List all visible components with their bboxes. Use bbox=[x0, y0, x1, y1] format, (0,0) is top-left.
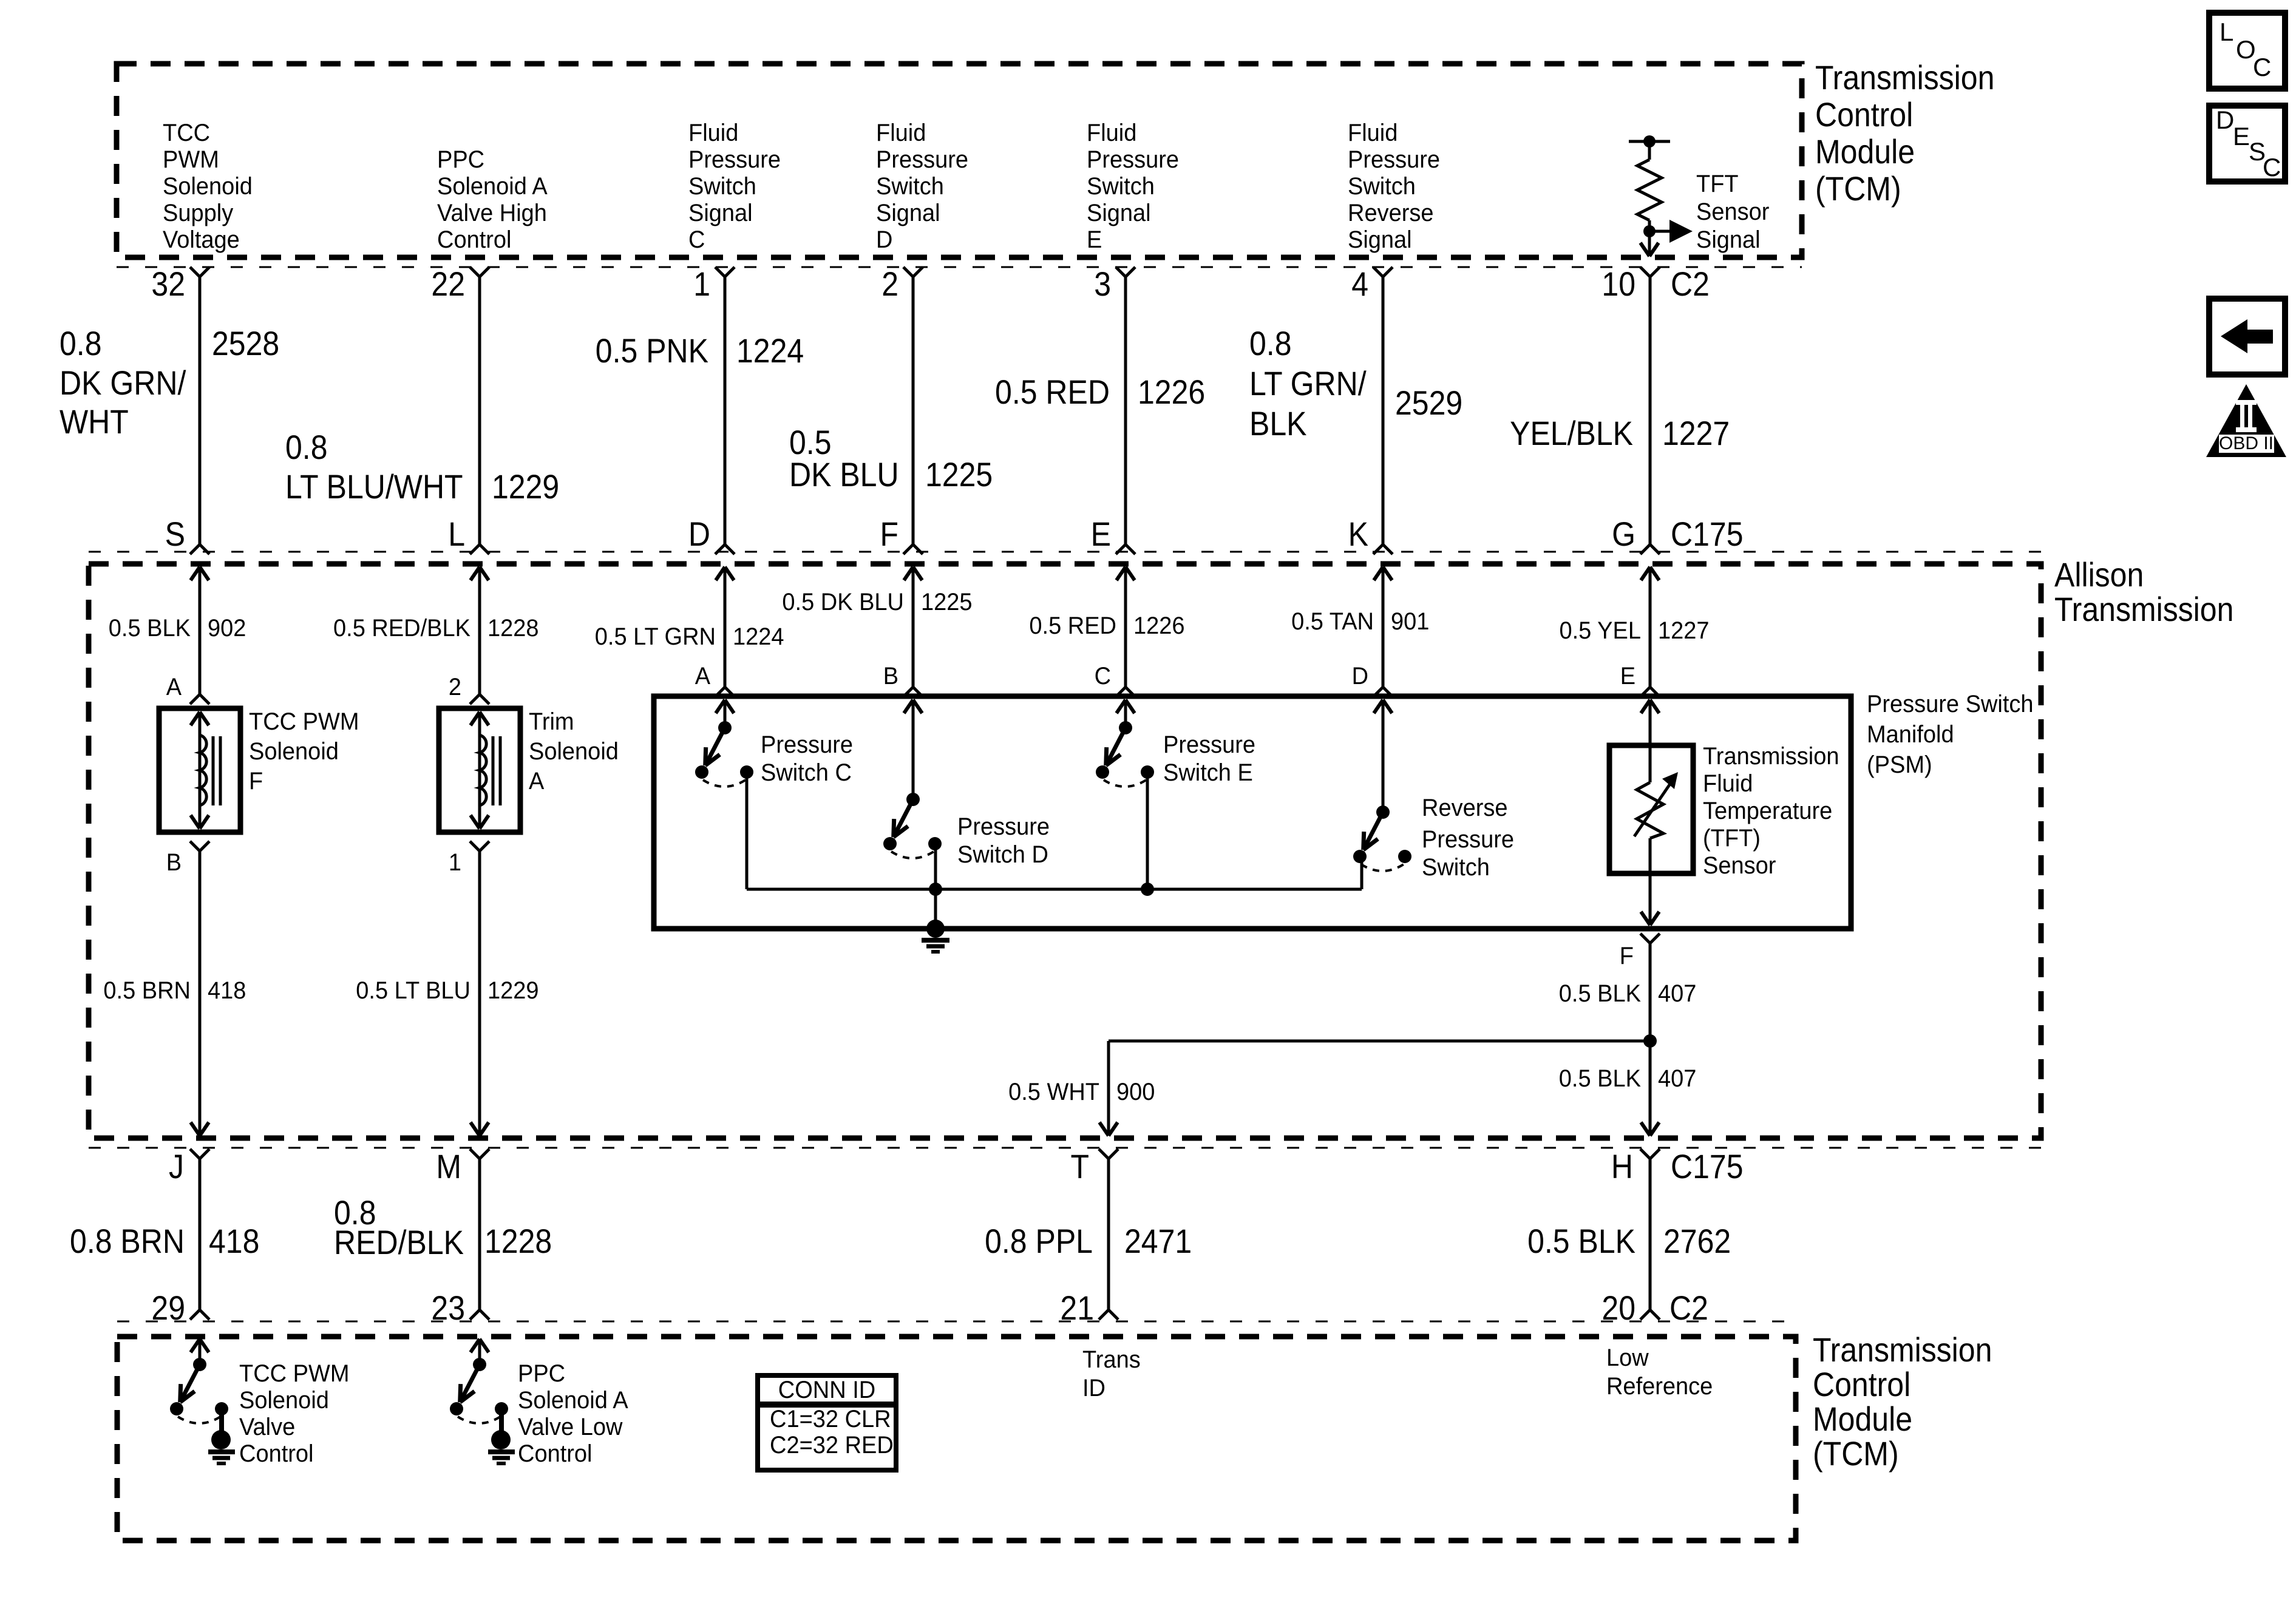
switch dashed arc Pressure Switch D bbox=[891, 852, 934, 858]
svg-text:Switch C: Switch C bbox=[761, 759, 852, 786]
connector terminal fork at TCM bottom connector bbox=[470, 1310, 480, 1320]
svg-text:0.5 DK BLU: 0.5 DK BLU bbox=[782, 589, 904, 615]
wire TFT signal tap bbox=[1649, 230, 1669, 233]
switch fixed contact PPC Solenoid A Valve Low Control bbox=[495, 1402, 508, 1415]
svg-text:Transmission: Transmission bbox=[1703, 743, 1839, 770]
wire T to pin 21 bbox=[1107, 1159, 1110, 1310]
switch pivot dot Pressure Switch D bbox=[906, 793, 920, 806]
svg-text:4: 4 bbox=[1351, 265, 1368, 303]
ground ball PPC Solenoid A Valve Low Control bbox=[491, 1430, 511, 1449]
switch pivot dot PPC Solenoid A Valve Low Control bbox=[473, 1358, 486, 1371]
wire from supply to resistor bbox=[1648, 141, 1651, 160]
switch pole contact Pressure Switch E bbox=[1096, 765, 1109, 779]
connector terminal arrow into Allison at C175 bbox=[904, 567, 913, 580]
wire C175 to Trim solenoid bbox=[478, 567, 481, 694]
wire TCC PWM solenoid to C175 bottom bbox=[199, 851, 202, 1136]
svg-text:A: A bbox=[166, 674, 182, 700]
svg-text:Signal: Signal bbox=[1087, 200, 1151, 226]
svg-text:C1=32 CLR: C1=32 CLR bbox=[770, 1406, 891, 1432]
wire switch C contact drop bbox=[746, 772, 749, 889]
wire from TCM to C175 bbox=[199, 277, 202, 544]
solenoid Trim Solenoid A coil bbox=[480, 735, 486, 805]
svg-text:Pressure Switch: Pressure Switch bbox=[1867, 691, 2034, 717]
svg-text:0.8: 0.8 bbox=[1249, 324, 1292, 362]
svg-text:F: F bbox=[1620, 943, 1634, 969]
svg-text:Switch: Switch bbox=[688, 173, 756, 200]
wire resistor to signal node bbox=[1648, 220, 1651, 254]
connector terminal arrow at Allison bottom edge bbox=[1641, 1122, 1650, 1136]
node junction 407/900 bbox=[1643, 1034, 1657, 1048]
svg-text:(PSM): (PSM) bbox=[1867, 751, 1932, 778]
svg-text:0.5 BLK: 0.5 BLK bbox=[1559, 1065, 1642, 1092]
connector terminal arrow into Allison at C175 bbox=[1116, 567, 1126, 580]
switch fixed contact Pressure Switch E bbox=[1141, 765, 1154, 779]
svg-text:22: 22 bbox=[431, 265, 465, 303]
svg-text:TCC PWM: TCC PWM bbox=[239, 1360, 350, 1387]
connector terminal fork at PSM top bbox=[1640, 687, 1650, 697]
svg-text:1227: 1227 bbox=[1658, 617, 1710, 644]
solenoid Trim Solenoid A internal wire bbox=[478, 712, 481, 829]
connector terminal arrow inside PSM top bbox=[1641, 700, 1650, 713]
svg-text:2: 2 bbox=[449, 674, 461, 700]
connector terminal fork at PSM top bbox=[903, 687, 913, 697]
switch dashed arc TCC PWM Solenoid Valve Control bbox=[178, 1417, 220, 1423]
connector terminal fork at PSM top bbox=[1116, 687, 1126, 697]
connector terminal arrow into Allison at C175 bbox=[470, 567, 480, 580]
connector terminal fork at C175 (TCM side) bbox=[1373, 544, 1383, 554]
svg-text:1228: 1228 bbox=[484, 1222, 552, 1260]
svg-text:Fluid: Fluid bbox=[1703, 770, 1753, 797]
svg-text:(TCM): (TCM) bbox=[1815, 169, 1901, 208]
connector terminal arrow inside PSM top bbox=[716, 700, 725, 713]
svg-text:S: S bbox=[165, 515, 185, 553]
switch dashed arc PPC Solenoid A Valve Low Control bbox=[458, 1417, 500, 1423]
svg-text:2529: 2529 bbox=[1395, 384, 1462, 422]
svg-text:Control: Control bbox=[239, 1440, 314, 1467]
svg-text:WHT: WHT bbox=[59, 402, 129, 441]
solenoid terminal fork bottom TCC PWM Solenoid F bbox=[190, 841, 200, 851]
wire C175 to PSM pin D bbox=[1382, 567, 1385, 687]
svg-text:0.5 BRN: 0.5 BRN bbox=[103, 977, 191, 1004]
svg-text:0.5 LT BLU: 0.5 LT BLU bbox=[356, 977, 470, 1004]
svg-text:Reverse: Reverse bbox=[1422, 795, 1508, 821]
svg-text:0.5 PNK: 0.5 PNK bbox=[596, 331, 708, 370]
svg-text:Pressure: Pressure bbox=[1422, 826, 1514, 853]
svg-text:LT GRN/: LT GRN/ bbox=[1249, 364, 1367, 402]
wire branch to Trans ID bbox=[1109, 1040, 1650, 1043]
svg-text:0.8: 0.8 bbox=[59, 324, 102, 362]
solenoid TCC PWM Solenoid F core bars bbox=[212, 736, 215, 805]
wire from TCM to C175 bbox=[912, 277, 915, 544]
wire C175 to PSM pin C bbox=[1124, 567, 1127, 687]
node bus junction at switch E bbox=[1141, 883, 1154, 896]
connector terminal arrow at Allison bottom edge bbox=[1099, 1122, 1109, 1136]
connector terminal fork at TCM bottom connector bbox=[190, 1310, 200, 1320]
Allison Transmission dashed box bbox=[89, 564, 2041, 1138]
svg-text:J: J bbox=[169, 1147, 184, 1185]
svg-text:H: H bbox=[1611, 1147, 1633, 1185]
svg-text:Transmission: Transmission bbox=[1813, 1331, 1992, 1369]
wire TFT sensor to PSM pin F bbox=[1649, 838, 1652, 925]
connector line C1/C2 at TCM top box bbox=[117, 266, 1802, 268]
connector terminal fork at TCM top connector bbox=[190, 267, 200, 277]
svg-text:Allison: Allison bbox=[2054, 555, 2144, 594]
thermistor TFT arrow bbox=[1634, 783, 1671, 836]
svg-text:C2=32 RED: C2=32 RED bbox=[770, 1432, 894, 1459]
connector terminal fork at PSM top bbox=[715, 687, 725, 697]
svg-text:B: B bbox=[166, 849, 182, 876]
svg-text:Fluid: Fluid bbox=[1087, 120, 1136, 146]
wire PSM pin D to reverse switch pivot bbox=[1382, 700, 1385, 812]
switch dashed arc Pressure Switch C bbox=[703, 780, 746, 787]
arrow into TCM at pin 23 bbox=[470, 1339, 480, 1352]
svg-text:C175: C175 bbox=[1671, 515, 1744, 553]
wire PSM pin F down to junction bbox=[1649, 943, 1652, 1136]
svg-text:Transmission: Transmission bbox=[2054, 590, 2233, 628]
switch pole contact Reverse Pressure Switch bbox=[1353, 850, 1367, 863]
wire H to pin 20 bbox=[1649, 1159, 1652, 1310]
svg-text:L: L bbox=[448, 515, 465, 553]
svg-text:T: T bbox=[1071, 1147, 1090, 1185]
switch pole contact TCC PWM Solenoid Valve Control bbox=[170, 1402, 183, 1415]
svg-text:C175: C175 bbox=[1671, 1147, 1744, 1185]
switch arm Pressure Switch C bbox=[705, 728, 725, 765]
svg-text:Module: Module bbox=[1815, 132, 1915, 171]
svg-text:2528: 2528 bbox=[212, 324, 279, 362]
svg-text:Signal: Signal bbox=[876, 200, 940, 226]
svg-text:1: 1 bbox=[449, 849, 461, 876]
switch arm PPC Solenoid A Valve Low Control bbox=[460, 1364, 480, 1402]
solenoid terminal fork top TCC PWM Solenoid F bbox=[190, 694, 200, 704]
svg-text:DK GRN/: DK GRN/ bbox=[59, 364, 186, 402]
arrow down TFT sensor signal to pin 10 bbox=[1640, 243, 1649, 256]
svg-text:Switch D: Switch D bbox=[957, 841, 1048, 868]
svg-text:1226: 1226 bbox=[1133, 612, 1185, 639]
svg-text:900: 900 bbox=[1116, 1079, 1155, 1105]
svg-text:0.8 BRN: 0.8 BRN bbox=[70, 1222, 185, 1260]
svg-text:A: A bbox=[695, 663, 711, 690]
svg-text:Switch: Switch bbox=[1348, 173, 1416, 200]
wire from TCM to C175 bbox=[478, 277, 481, 544]
ground ball PSM bbox=[926, 920, 945, 938]
Transmission Control Module (TCM) bottom dashed box bbox=[117, 1337, 1796, 1541]
svg-text:0.5 WHT: 0.5 WHT bbox=[1008, 1079, 1099, 1105]
switch fixed contact Pressure Switch C bbox=[740, 765, 753, 779]
svg-text:Switch: Switch bbox=[876, 173, 944, 200]
svg-text:PWM: PWM bbox=[163, 146, 219, 173]
connector terminal fork at PSM top bbox=[1373, 687, 1383, 697]
svg-text:901: 901 bbox=[1391, 608, 1429, 635]
switch dashed arc Pressure Switch E bbox=[1104, 780, 1146, 787]
svg-text:B: B bbox=[883, 663, 898, 690]
svg-text:Supply: Supply bbox=[163, 200, 233, 226]
svg-text:0.5 BLK: 0.5 BLK bbox=[109, 615, 191, 642]
svg-text:Valve: Valve bbox=[239, 1414, 295, 1440]
svg-text:0.8: 0.8 bbox=[285, 428, 328, 466]
svg-text:0.5 RED/BLK: 0.5 RED/BLK bbox=[333, 615, 470, 642]
svg-text:L: L bbox=[2220, 18, 2233, 46]
svg-text:Sensor: Sensor bbox=[1703, 852, 1776, 879]
svg-text:1229: 1229 bbox=[492, 467, 559, 506]
svg-text:D: D bbox=[876, 226, 892, 253]
resistor TFT pull-up bbox=[1637, 160, 1662, 220]
connector terminal fork at TCM bottom connector bbox=[1099, 1310, 1109, 1320]
svg-text:1224: 1224 bbox=[736, 331, 804, 370]
connector line C175 bbox=[89, 551, 2041, 553]
svg-text:0.5 BLK: 0.5 BLK bbox=[1559, 980, 1642, 1007]
svg-text:Fluid: Fluid bbox=[1348, 120, 1398, 146]
svg-text:C: C bbox=[1095, 663, 1111, 690]
connector terminal arrow at Allison bottom edge bbox=[191, 1122, 200, 1136]
svg-text:Fluid: Fluid bbox=[876, 120, 926, 146]
wire M to pin 23 bbox=[478, 1159, 481, 1310]
solenoid TCC PWM Solenoid F internal wire bbox=[199, 712, 202, 829]
connector terminal fork at TCM top connector bbox=[1373, 267, 1383, 277]
arrow down at PSM pin F inside bbox=[1641, 912, 1650, 925]
svg-text:D: D bbox=[2216, 106, 2234, 134]
ground symbol PPC Solenoid A Valve Low Control bbox=[488, 1449, 515, 1454]
wire PSM pin A to switch C pivot bbox=[724, 700, 727, 728]
svg-text:0.5 RED: 0.5 RED bbox=[1029, 612, 1116, 639]
switch fixed contact Reverse Pressure Switch bbox=[1398, 850, 1411, 863]
wire reverse switch pole drop bbox=[1360, 856, 1364, 889]
wire C175 to PSM pin E bbox=[1649, 567, 1652, 687]
svg-text:A: A bbox=[529, 768, 545, 795]
svg-text:E: E bbox=[1620, 663, 1635, 690]
svg-text:3: 3 bbox=[1094, 265, 1111, 303]
svg-text:Control: Control bbox=[437, 226, 512, 253]
connector line C2 at TCM bottom box bbox=[117, 1321, 1796, 1323]
connector terminal arrow at Allison bottom edge bbox=[470, 1122, 480, 1136]
svg-text:C: C bbox=[2253, 53, 2271, 81]
thermistor TFT zigzag bbox=[1637, 782, 1663, 838]
svg-text:RED/BLK: RED/BLK bbox=[334, 1223, 464, 1261]
wire PSM pin C to switch E pivot bbox=[1124, 700, 1127, 728]
icon OBD II triangle bbox=[2206, 384, 2286, 457]
wire from TCM to C175 bbox=[1649, 277, 1652, 544]
svg-text:0.5 TAN: 0.5 TAN bbox=[1291, 608, 1374, 635]
svg-text:32: 32 bbox=[151, 265, 185, 303]
arrow TFT signal (filled right) bbox=[1669, 220, 1693, 243]
connector terminal fork at C175 (TCM side) bbox=[190, 544, 200, 554]
svg-text:Switch E: Switch E bbox=[1163, 759, 1253, 786]
svg-text:2471: 2471 bbox=[1124, 1222, 1192, 1260]
solenoid terminal fork top Trim Solenoid A bbox=[470, 694, 480, 704]
svg-text:Signal: Signal bbox=[1348, 226, 1412, 253]
svg-text:Trim: Trim bbox=[529, 708, 574, 735]
wire contact to ground TCC PWM Solenoid Valve Control bbox=[219, 1409, 224, 1432]
wire pin 29 to TCC PWM valve switch bbox=[199, 1339, 202, 1364]
svg-text:0.5 LT GRN: 0.5 LT GRN bbox=[595, 623, 716, 650]
svg-text:Voltage: Voltage bbox=[163, 226, 240, 253]
svg-text:Reverse: Reverse bbox=[1348, 200, 1434, 226]
svg-text:Pressure: Pressure bbox=[957, 813, 1050, 840]
wire C175 to PSM pin A bbox=[724, 567, 727, 687]
svg-text:Pressure: Pressure bbox=[1348, 146, 1440, 173]
svg-text:Pressure: Pressure bbox=[688, 146, 781, 173]
svg-text:PPC: PPC bbox=[518, 1360, 565, 1387]
svg-text:Low: Low bbox=[1606, 1344, 1649, 1371]
solenoid Trim Solenoid A box bbox=[439, 708, 520, 832]
svg-text:407: 407 bbox=[1658, 980, 1696, 1007]
connector terminal fork below PSM pin F bbox=[1640, 934, 1650, 943]
svg-text:Solenoid: Solenoid bbox=[239, 1387, 329, 1414]
svg-text:OBD II: OBD II bbox=[2219, 433, 2274, 453]
svg-text:Solenoid A: Solenoid A bbox=[518, 1387, 628, 1414]
ground symbol TCC PWM Solenoid Valve Control bbox=[208, 1449, 235, 1454]
connector terminal arrow inside PSM top bbox=[1116, 700, 1126, 713]
svg-text:902: 902 bbox=[208, 615, 246, 642]
svg-text:Pressure: Pressure bbox=[761, 731, 853, 758]
svg-text:G: G bbox=[1612, 515, 1635, 553]
connector terminal arrow into Allison at C175 bbox=[1641, 567, 1650, 580]
svg-text:0.5 YEL: 0.5 YEL bbox=[1560, 617, 1642, 644]
connector terminal fork below C175 bottom bbox=[470, 1149, 480, 1159]
connector terminal fork below C175 bottom bbox=[1640, 1149, 1650, 1159]
svg-text:(TFT): (TFT) bbox=[1703, 825, 1761, 852]
wire C175 to PSM pin B bbox=[912, 567, 915, 687]
icon LOC box bbox=[2209, 13, 2285, 89]
wire from TCM to C175 bbox=[724, 277, 727, 544]
Transmission Control Module (TCM) top dashed box bbox=[117, 64, 1802, 257]
connector terminal arrow inside PSM top bbox=[1374, 700, 1383, 713]
svg-text:Module: Module bbox=[1813, 1400, 1912, 1438]
switch arm Pressure Switch E bbox=[1106, 728, 1126, 765]
wire C175 to TCC PWM solenoid bbox=[199, 567, 202, 694]
svg-text:(TCM): (TCM) bbox=[1813, 1434, 1899, 1473]
svg-text:TFT: TFT bbox=[1696, 171, 1739, 197]
svg-text:1225: 1225 bbox=[921, 589, 973, 615]
svg-text:407: 407 bbox=[1658, 1065, 1696, 1092]
svg-text:Fluid: Fluid bbox=[688, 120, 738, 146]
wire from TCM to C175 bbox=[1124, 277, 1127, 544]
switch pivot dot TCC PWM Solenoid Valve Control bbox=[193, 1358, 206, 1371]
svg-text:D: D bbox=[1352, 663, 1368, 690]
svg-text:Switch: Switch bbox=[1422, 854, 1490, 881]
solenoid Trim Solenoid A bottom arrow bbox=[470, 815, 480, 829]
svg-text:PPC: PPC bbox=[437, 146, 484, 173]
ground ball TCC PWM Solenoid Valve Control bbox=[211, 1430, 231, 1449]
svg-text:Valve High: Valve High bbox=[437, 200, 547, 226]
svg-text:0.5 BLK: 0.5 BLK bbox=[1527, 1222, 1635, 1260]
svg-text:Solenoid: Solenoid bbox=[163, 173, 253, 200]
connector terminal arrow into Allison at C175 bbox=[191, 567, 200, 580]
connector terminal arrow inside PSM top bbox=[904, 700, 913, 713]
svg-text:E: E bbox=[1091, 515, 1111, 553]
switch pole contact Pressure Switch D bbox=[883, 837, 897, 850]
svg-text:1225: 1225 bbox=[925, 455, 993, 493]
connector terminal arrow into Allison at C175 bbox=[1374, 567, 1383, 580]
connector line C175 bottom bbox=[89, 1147, 2041, 1149]
svg-text:CONN ID: CONN ID bbox=[778, 1377, 875, 1403]
svg-text:F: F bbox=[249, 768, 263, 795]
wire TFT supply bar bbox=[1629, 140, 1670, 143]
connector terminal fork at TCM top connector bbox=[903, 267, 913, 277]
svg-text:Pressure: Pressure bbox=[876, 146, 968, 173]
svg-text:Pressure: Pressure bbox=[1087, 146, 1179, 173]
svg-text:0.5 RED: 0.5 RED bbox=[995, 373, 1110, 411]
wire PSM pin E to TFT sensor bbox=[1649, 700, 1652, 782]
svg-text:1228: 1228 bbox=[487, 615, 539, 642]
switch pivot dot Reverse Pressure Switch bbox=[1376, 805, 1390, 819]
switch pole contact Pressure Switch C bbox=[695, 765, 708, 779]
svg-text:0.8 PPL: 0.8 PPL bbox=[985, 1222, 1093, 1260]
node TFT supply junction bbox=[1643, 135, 1656, 147]
switch fixed contact Pressure Switch D bbox=[928, 837, 942, 850]
svg-text:2: 2 bbox=[881, 265, 898, 303]
svg-text:1: 1 bbox=[693, 265, 710, 303]
svg-text:F: F bbox=[880, 515, 899, 553]
svg-text:Control: Control bbox=[1815, 95, 1913, 134]
svg-text:418: 418 bbox=[209, 1222, 259, 1260]
svg-text:BLK: BLK bbox=[1249, 404, 1307, 442]
solenoid TCC PWM Solenoid F coil bbox=[200, 735, 206, 805]
svg-text:M: M bbox=[436, 1147, 461, 1185]
svg-text:E: E bbox=[2233, 122, 2250, 151]
svg-text:1229: 1229 bbox=[487, 977, 539, 1004]
CONN ID table box bbox=[758, 1375, 896, 1404]
connector terminal fork at C175 (TCM side) bbox=[1116, 544, 1126, 554]
connector terminal fork below C175 bottom bbox=[190, 1149, 200, 1159]
svg-text:Switch: Switch bbox=[1087, 173, 1155, 200]
svg-text:Solenoid: Solenoid bbox=[529, 738, 619, 765]
svg-text:TCC PWM: TCC PWM bbox=[249, 708, 359, 735]
TFT sensor box bbox=[1609, 745, 1693, 873]
connector terminal arrow into Allison at C175 bbox=[716, 567, 725, 580]
wire from TCM to C175 bbox=[1382, 277, 1385, 544]
connector terminal fork at C175 (TCM side) bbox=[470, 544, 480, 554]
svg-text:C: C bbox=[688, 226, 705, 253]
connector terminal fork at TCM top connector bbox=[1640, 267, 1650, 277]
solenoid TCC PWM Solenoid F box bbox=[159, 708, 240, 832]
svg-text:Manifold: Manifold bbox=[1867, 721, 1954, 748]
connector terminal fork below C175 bottom bbox=[1099, 1149, 1109, 1159]
wire PSM pin B to switch D pivot bbox=[912, 700, 915, 799]
svg-text:Control: Control bbox=[518, 1440, 593, 1467]
icon DESC box bbox=[2209, 106, 2285, 181]
svg-text:Trans: Trans bbox=[1082, 1346, 1141, 1373]
svg-text:Control: Control bbox=[1813, 1365, 1911, 1403]
wire switch D contact drop to ground bbox=[934, 845, 937, 929]
svg-text:E: E bbox=[1087, 226, 1102, 253]
solenoid TCC PWM Solenoid F bottom arrow bbox=[191, 815, 200, 829]
svg-text:Signal: Signal bbox=[688, 200, 753, 226]
svg-text:Temperature: Temperature bbox=[1703, 798, 1832, 824]
svg-text:ID: ID bbox=[1082, 1375, 1106, 1402]
svg-text:YEL/BLK: YEL/BLK bbox=[1510, 414, 1633, 452]
svg-text:LT BLU/WHT: LT BLU/WHT bbox=[285, 467, 463, 506]
switch arm TCC PWM Solenoid Valve Control bbox=[180, 1364, 200, 1402]
node bus junction at switch D bbox=[929, 883, 942, 896]
wire Trim solenoid to C175 bottom bbox=[478, 851, 481, 1136]
svg-text:Valve Low: Valve Low bbox=[518, 1414, 623, 1440]
connector terminal fork at TCM bottom connector bbox=[1640, 1310, 1650, 1320]
svg-text:C2: C2 bbox=[1671, 265, 1710, 303]
switch pivot dot Pressure Switch C bbox=[718, 721, 732, 734]
svg-text:Reference: Reference bbox=[1606, 1373, 1713, 1400]
switch arm Reverse Pressure Switch bbox=[1364, 812, 1383, 850]
connector terminal fork at C175 (TCM side) bbox=[715, 544, 725, 554]
svg-text:C: C bbox=[2263, 153, 2281, 181]
connector terminal fork at TCM top connector bbox=[715, 267, 725, 277]
svg-text:DK BLU: DK BLU bbox=[789, 455, 899, 493]
wire contact to ground PPC Solenoid A Valve Low Control bbox=[499, 1409, 504, 1432]
svg-text:Pressure: Pressure bbox=[1163, 731, 1255, 758]
svg-text:Solenoid A: Solenoid A bbox=[437, 173, 548, 200]
switch arm Pressure Switch D bbox=[894, 799, 913, 837]
connector terminal fork at TCM top connector bbox=[470, 267, 480, 277]
switch pole contact PPC Solenoid A Valve Low Control bbox=[450, 1402, 463, 1415]
